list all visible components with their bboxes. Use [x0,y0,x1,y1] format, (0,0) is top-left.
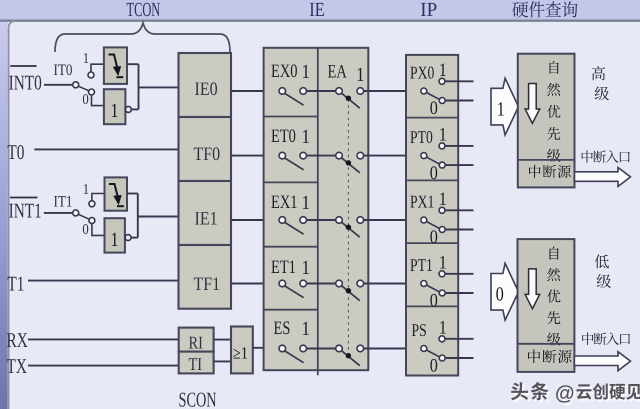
block arrow 0 (low priority group) [491,263,519,320]
switch IT0 arm [78,86,88,91]
wire EA row 2 to IP [364,155,421,157]
svg-text:0: 0 [82,222,88,238]
switch IT0 pivot [73,82,79,88]
wire EA row 4 to IP [364,283,421,285]
wire PS out 0 [445,357,473,359]
register TCON.TF1 [179,245,232,309]
svg-text:0: 0 [496,284,504,306]
wire TI to OR gate [214,360,231,362]
wire EA row 1 to IP [364,90,421,92]
svg-text:1: 1 [497,99,505,121]
wire IT0 contact0 to level detector [92,95,104,106]
wire detector outputs join (INT1) [127,193,138,195]
svg-text:0: 0 [430,356,438,377]
IE cell divider [264,116,318,118]
panel rounded border [9,21,16,409]
wire IT0 contact1 to edge detector [91,64,104,72]
wire PX1 out 1 [445,209,474,211]
register TCON.IE0 [179,53,232,117]
wire PX0 out 0 [445,100,473,102]
edge detector box (INT0) [104,47,127,84]
wire TX to TI [28,365,179,367]
wire PT1 out 1 [445,273,474,275]
block arrow 1 (high priority group) [491,78,519,135]
TCON brace [55,23,230,52]
label 中断入口 (low) [582,333,593,345]
svg-text:EX0: EX0 [271,61,297,82]
wire to IE0 [139,86,179,88]
wire T0 to TF0 [34,148,178,150]
switch IT1 pivot [73,210,79,216]
wire ET1 to EA [307,283,336,285]
wire PS out 1 [445,338,474,340]
level detector box 1 (INT0) [104,89,126,124]
IE inner divider [317,48,319,375]
inverter bubble (INT1 level) [125,235,131,241]
wire RI to OR gate [214,339,231,341]
switch IT1 contact 0 [89,218,95,224]
svg-text:ES: ES [274,318,291,339]
wire IE1 to EX1 [231,219,280,221]
svg-text:PT0: PT0 [410,127,433,147]
svg-text:1: 1 [83,51,89,67]
svg-text:TI: TI [189,354,203,374]
wire IE0 to EX0 [231,90,279,92]
svg-text:≥1: ≥1 [233,344,248,363]
IE cell divider [264,309,318,311]
switch EA row 2 [336,152,343,159]
wire PT0 out 1 [445,145,474,147]
svg-text:PX1: PX1 [410,191,434,211]
left gradient band [0,20,8,409]
wire T1 to TF1 [28,280,179,282]
svg-text:SCON: SCON [179,387,217,409]
svg-text:IP: IP [420,0,437,21]
switch IT0 contact 1 [88,72,94,78]
svg-text:PX0: PX0 [410,62,434,82]
wire PX0 out 1 [445,80,474,82]
EA gang dashed line [347,99,349,356]
svg-text:ET0: ET0 [271,126,296,147]
wire TF1 to ET1 [231,283,280,285]
priority encoder box (high) [518,54,575,188]
svg-text:IT0: IT0 [54,62,73,79]
label 高级 [592,66,606,80]
svg-text:1: 1 [83,182,89,198]
wire IT1 contact0 to level detector [92,223,105,235]
IP cell divider [406,179,458,181]
svg-text:INT1: INT1 [9,198,42,222]
svg-text:@: @ [555,383,575,405]
svg-text:1: 1 [302,61,311,83]
wire INT1 to IT1 switch pivot [44,212,73,214]
wire INT0 to IT0 switch pivot [44,84,73,86]
natural priority down arrow (high) [525,84,540,124]
divider + label 中断源 (low) [518,343,575,345]
text 自然优先级 (low) [549,247,558,260]
svg-text:0: 0 [82,92,88,108]
svg-text:TF0: TF0 [194,144,221,165]
svg-text:1: 1 [302,126,311,148]
title underline [0,20,640,22]
falling edge symbol (INT1) [109,184,118,197]
svg-text:1: 1 [302,192,311,214]
wire EA row 3 to IP [364,219,421,221]
switch IT1 arm [78,214,89,219]
svg-text:TF1: TF1 [194,274,221,295]
switch EA row 5 [336,345,343,352]
svg-text:0: 0 [430,227,438,248]
wire PT0 out 0 [445,164,473,166]
wire ET0 to EA [307,155,336,157]
switch EA row 3 [336,217,343,224]
wire ES to EA [307,348,336,350]
divider + label 中断源 (high) [518,159,575,161]
switch EA row 1 [336,88,343,95]
IP cell divider [406,117,458,119]
svg-text:T1: T1 [7,271,24,295]
wire EA row 5 to IP [364,348,421,350]
watermark 头条@云创硬见 [513,384,530,402]
title strip [0,0,640,20]
svg-text:0: 0 [430,163,438,184]
svg-text:1: 1 [302,257,311,279]
svg-text:TX: TX [7,354,27,378]
svg-text:0: 0 [430,291,438,312]
register TCON.IE1 [179,181,232,245]
svg-text:0: 0 [430,98,438,119]
edge detector box (INT1) [105,177,128,210]
register SCON.TI [179,352,214,374]
svg-text:PS: PS [412,320,427,340]
label 中断入口 (high) [582,150,593,162]
svg-text:INT0: INT0 [9,71,42,95]
svg-text:IE1: IE1 [195,209,218,230]
interrupt entry arrow (high) [575,168,631,187]
register SCON.RI [179,328,214,352]
svg-text:TCON: TCON [127,0,161,21]
svg-text:ET1: ET1 [271,257,296,278]
wire OR gate to ES [253,347,279,349]
wire IT1 contact1 to edge detector [92,194,105,202]
text 自然优先级 (high) [549,61,558,74]
svg-text:IT1: IT1 [54,194,73,211]
svg-text:RI: RI [189,333,203,353]
register TCON.TF0 [179,117,232,181]
svg-text:1: 1 [302,318,311,340]
IP cell divider [406,242,458,244]
switch EA row 4 [336,280,343,287]
title 硬件查询 [512,2,528,18]
OR gate >=1 [231,327,253,374]
svg-text:T0: T0 [7,140,24,164]
IP register block [406,55,458,376]
svg-text:1: 1 [356,64,365,86]
priority encoder box (low) [518,239,575,372]
svg-text:1: 1 [111,100,119,122]
svg-text:EX1: EX1 [271,192,297,213]
natural priority down arrow (low) [525,269,540,309]
svg-text:PT1: PT1 [410,255,433,275]
inverter bubble (INT0 level) [125,106,131,112]
IE register block [264,48,369,370]
node INT0 label with overline [10,65,36,67]
interrupt entry arrow (low) [574,352,630,371]
svg-text:IE: IE [309,0,324,21]
svg-text:RX: RX [7,328,28,352]
switch IT0 contact 0 [89,89,95,95]
svg-text:IE0: IE0 [195,79,218,100]
wire RX to RI [28,338,179,340]
wire to IE1 [138,216,179,218]
svg-text:1: 1 [111,229,119,251]
wire PT1 out 0 [445,292,473,294]
IE cell divider [264,246,318,248]
falling edge symbol [109,55,118,69]
IE cell divider [264,181,318,183]
switch IT1 contact 1 [89,201,95,207]
label 低级 [595,254,609,268]
svg-text:EA: EA [328,62,347,83]
wire detector outputs join [127,63,139,65]
wire EX0 to EA [307,90,336,92]
IP cell divider [406,305,458,307]
wire TF0 to ET0 [231,155,279,157]
node INT1 label with overline [10,197,38,199]
wire PX1 out 0 [445,229,473,231]
level detector box 1 (INT1) [105,218,125,252]
wire EX1 to EA [307,219,336,221]
